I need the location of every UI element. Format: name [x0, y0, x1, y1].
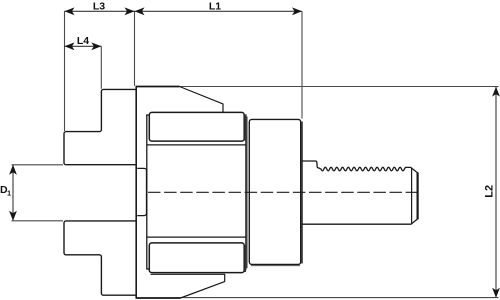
bracket bottom-left	[64, 221, 136, 295]
block bottom edge	[147, 236, 246, 238]
arrow D1 up	[9, 165, 17, 175]
svg-text:L3: L3	[93, 1, 105, 13]
flange face	[135, 87, 137, 299]
block top edge	[147, 144, 246, 146]
relief groove between flange and body	[137, 168, 146, 215]
cylinder right shadow	[246, 117, 248, 269]
shank chamfer line	[411, 168, 413, 225]
ext line D1 top	[12, 164, 64, 166]
arrow L3 right	[125, 7, 135, 15]
dim line D1	[12, 165, 14, 221]
ext line L2 top	[180, 86, 499, 88]
body bottom edge	[136, 297, 181, 299]
arrow L2 down	[492, 288, 500, 298]
ring	[249, 119, 300, 264]
arrow L2 up	[492, 87, 500, 97]
ext line left (L3/L4 origin)	[64, 11, 66, 131]
ext line L2 bottom	[181, 297, 499, 299]
dim line L3	[65, 10, 135, 12]
arrow L1 right	[292, 7, 302, 15]
ring right shadow	[301, 122, 303, 264]
ring bottom shadow	[251, 265, 300, 267]
ext line D1 bottom	[12, 220, 64, 222]
cap upper right shadow	[244, 115, 246, 141]
bracket top-left	[64, 89, 136, 164]
cylinder body	[147, 115, 246, 269]
body top edge	[136, 86, 180, 88]
dim line L1	[135, 10, 303, 12]
ext line L1 right	[301, 11, 303, 118]
cap lower	[149, 243, 244, 273]
arrow L3 left	[65, 7, 75, 15]
shank outline with thread	[302, 161, 418, 224]
dim line L4	[65, 45, 102, 47]
arrow D1 down	[9, 211, 17, 221]
ext line L4 right	[100, 46, 102, 89]
centerline	[148, 191, 421, 193]
arrow L4 right	[91, 42, 101, 50]
body top chamfer	[180, 87, 224, 113]
cap lower right shadow	[244, 245, 246, 272]
arrow L1 left	[135, 7, 145, 15]
ext line L3/L1 boundary	[134, 11, 136, 86]
dim line L2	[495, 87, 497, 298]
svg-text:L1: L1	[209, 1, 221, 13]
svg-text:L4: L4	[77, 35, 89, 47]
svg-text:L2: L2	[484, 185, 496, 198]
shank end face	[417, 173, 419, 220]
cap upper	[149, 112, 244, 141]
svg-text:1: 1	[7, 188, 11, 197]
arrow L4 left	[65, 42, 75, 50]
body bottom chamfer	[151, 274, 225, 298]
